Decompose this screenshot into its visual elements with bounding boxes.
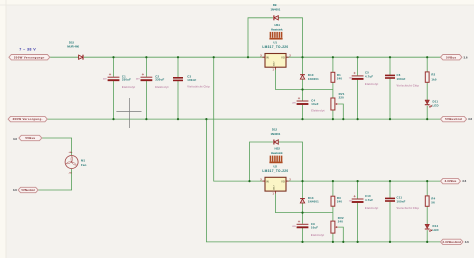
- wire RV1 wiper to ground: [338, 104, 343, 119]
- svg-text:330uF: 330uF: [155, 77, 164, 81]
- svg-text:20V: 20V: [136, 79, 140, 81]
- wire fan - to 5VBusGnd label: [38, 169, 72, 190]
- svg-text:5VBusGnd: 5VBusGnd: [445, 117, 462, 121]
- heatsink HS2: [269, 156, 282, 163]
- diode D9 1N4001: [274, 15, 278, 20]
- junction VIN/5V rail x=113.5: [112, 56, 114, 58]
- svg-text:240: 240: [337, 200, 343, 204]
- wire VIN rail from D15 to U1 IN: [84, 56, 265, 58]
- capacitor C11 100nF: [385, 196, 419, 210]
- svg-text:3.6: 3.6: [468, 117, 472, 121]
- svg-text:7 – 38 V: 7 – 38 V: [19, 48, 36, 52]
- svg-text:Elektrolyt: Elektrolyt: [365, 207, 378, 210]
- junction 3.3V rail x=249.5: [248, 180, 250, 182]
- wire R2 top: [426, 57, 428, 72]
- svg-text:Vielschicht Chip: Vielschicht Chip: [397, 84, 420, 87]
- wire R4 to D14: [426, 206, 428, 224]
- wire U2 ADJ to adjust rail: [276, 194, 333, 213]
- svg-text:R2: R2: [431, 73, 435, 77]
- svg-text:240: 240: [337, 77, 343, 81]
- svg-text:MUR 460: MUR 460: [67, 44, 79, 48]
- LED D14: [425, 224, 432, 231]
- LED D11: [425, 100, 432, 107]
- hierarchical label 5VBusGnd (fan return): [18, 187, 38, 192]
- capacitor C2 330uF: [136, 73, 169, 89]
- junction GND rail x=302.5: [301, 118, 303, 120]
- wire D9 bypass loop: [248, 18, 273, 57]
- wire C1 top: [113, 57, 115, 76]
- wire D11 to ground: [426, 106, 428, 119]
- wire VIN rail from input label to D15: [50, 56, 79, 58]
- svg-text:M1: M1: [81, 159, 86, 163]
- wire RV1 bottom: [332, 110, 334, 119]
- wire D9 bypass loop right: [278, 18, 302, 57]
- junction VIN/5V rail x=248: [247, 56, 249, 58]
- diode D10 1N4001: [300, 75, 305, 79]
- wire RV1 top: [332, 90, 334, 99]
- hierarchical label 5VBus output: [441, 55, 462, 60]
- junction 3.3V rail x=357.6: [357, 180, 359, 182]
- wire R3 bottom: [332, 206, 334, 212]
- svg-text:D12: D12: [272, 127, 278, 131]
- potentiometer RV2 240: [331, 216, 344, 233]
- wire R4 top: [426, 181, 428, 196]
- heatsink HS1: [269, 32, 282, 39]
- wire C11 bottom: [389, 202, 391, 242]
- svg-text:10uF: 10uF: [311, 226, 318, 230]
- wire 3.3V output rail from U2 VO to 3.3VBus label: [286, 180, 441, 182]
- svg-text:330uF: 330uF: [122, 77, 131, 81]
- wire C11 top: [389, 181, 391, 198]
- svg-text:1N4001: 1N4001: [270, 132, 280, 136]
- junction section-2 GND rail x=357.6: [357, 241, 359, 243]
- hierarchical label 5VBusGnd output: [441, 116, 467, 121]
- junction section-2 GND rail x=390: [389, 241, 391, 243]
- svg-text:1k0: 1k0: [431, 77, 437, 81]
- junction VIN/5V rail x=178: [177, 56, 179, 58]
- svg-text:D9: D9: [273, 3, 277, 7]
- junction GND rail x=146.4: [145, 118, 147, 120]
- svg-text:3.6: 3.6: [465, 240, 469, 244]
- svg-text:10uF: 10uF: [311, 102, 318, 106]
- svg-text:5VBus: 5VBus: [25, 136, 35, 140]
- svg-text:3.6: 3.6: [464, 55, 468, 59]
- junction GND rail x=113.5: [112, 118, 114, 120]
- svg-text:Vielschicht Chip: Vielschicht Chip: [397, 207, 420, 210]
- junction GND rail x=332.9: [332, 118, 334, 120]
- wire C4 bottom: [302, 105, 304, 120]
- svg-text:20V: 20V: [292, 226, 296, 228]
- regulator U2 LM317 TO-220: [260, 177, 291, 195]
- hierarchical label 200W Versorgung+: [9, 55, 50, 60]
- junction section-2 GND rail x=332.9: [332, 241, 334, 243]
- wire 5VBus label to fan +: [42, 138, 72, 155]
- wire C6 bottom: [389, 78, 391, 119]
- junction 3.3V rail x=332.9: [332, 180, 334, 182]
- junction GND rail x=206.4: [205, 118, 207, 120]
- svg-text:Fan: Fan: [81, 163, 87, 167]
- svg-text:U2: U2: [273, 164, 277, 168]
- svg-text:ADJ: ADJ: [273, 61, 276, 66]
- hierarchical label 5VBus (fan feed): [19, 135, 42, 140]
- wire RV2 top: [332, 213, 334, 222]
- svg-text:ADJ: ADJ: [273, 185, 276, 190]
- svg-text:VO: VO: [281, 180, 285, 183]
- svg-text:20V: 20V: [103, 79, 107, 81]
- junction 3.3V rail x=390: [389, 180, 391, 182]
- svg-text:220: 220: [339, 96, 345, 100]
- svg-text:4.7uF: 4.7uF: [365, 198, 373, 202]
- wire D10 bottom: [302, 79, 304, 89]
- hierarchical label 200W Versorgung-: [8, 116, 47, 121]
- capacitor C1 330uF: [103, 73, 135, 89]
- svg-text:5VBus: 5VBus: [446, 55, 456, 59]
- junction VIN/5V rail x=213.7: [213, 56, 215, 58]
- svg-text:3.3VBus: 3.3VBus: [445, 179, 457, 183]
- junction 3.3V rail x=302.5: [301, 180, 303, 182]
- svg-text:240: 240: [338, 220, 344, 224]
- capacitor C5 4.7uF: [349, 71, 379, 87]
- junction section-2 GND rail x=302.5: [301, 241, 303, 243]
- svg-text:Elektrolyt: Elektrolyt: [122, 86, 135, 89]
- junction GND rail x=178: [177, 118, 179, 120]
- wire D12 bypass loop: [250, 142, 273, 181]
- svg-text:10V: 10V: [349, 77, 353, 79]
- svg-text:1N4001: 1N4001: [308, 200, 319, 204]
- svg-text:100nF: 100nF: [187, 78, 196, 82]
- wire branch VIN down to U2 IN: [214, 57, 265, 181]
- svg-text:Elektrolyt: Elektrolyt: [365, 83, 378, 86]
- svg-text:Heatsink: Heatsink: [271, 151, 283, 155]
- hierarchical label 3.3VBusGnd output: [441, 239, 464, 244]
- svg-text:U1: U1: [273, 40, 277, 44]
- junction VIN/5V rail x=390: [389, 56, 391, 58]
- svg-text:HS1: HS1: [274, 23, 280, 27]
- svg-text:3.6: 3.6: [13, 188, 17, 192]
- junction section-2 GND rail x=343.3: [342, 241, 344, 243]
- junction VIN/5V rail x=146.4: [145, 56, 147, 58]
- svg-text:56: 56: [431, 201, 435, 205]
- junction GND rail x=343.3: [342, 118, 344, 120]
- wire C3 top: [177, 57, 179, 77]
- wire D13 top: [302, 181, 304, 198]
- wire C3 bottom: [177, 81, 179, 120]
- svg-text:1N4001: 1N4001: [308, 77, 319, 81]
- svg-text:Heatsink: Heatsink: [271, 28, 283, 32]
- junction section-2 GND rail x=427.2: [426, 241, 428, 243]
- hierarchical label 3.3VBus output: [441, 178, 461, 183]
- svg-text:Vielschicht Chip: Vielschicht Chip: [187, 85, 210, 88]
- junction GND rail x=390: [389, 118, 391, 120]
- cursor crosshair: [116, 98, 141, 128]
- svg-text:LM317_TO-220: LM317_TO-220: [262, 169, 288, 173]
- wire R3 top: [332, 181, 334, 196]
- svg-text:LED: LED: [433, 104, 439, 108]
- svg-text:100nF: 100nF: [397, 199, 406, 203]
- wire D13 bottom: [302, 203, 304, 213]
- diode D13 1N4001: [300, 199, 305, 203]
- resistor R2 1k0: [425, 72, 437, 82]
- wire 5V output rail from U1 VO to 5VBus label: [286, 56, 441, 58]
- svg-text:100nF: 100nF: [397, 77, 406, 81]
- diode D15 MUR460: [79, 55, 83, 60]
- junction GND rail x=427.2: [426, 118, 428, 120]
- potentiometer RV1 220: [331, 92, 345, 110]
- wire C4 top: [302, 90, 304, 101]
- wire C5 top: [357, 57, 359, 75]
- svg-text:200W Versorgung-: 200W Versorgung-: [13, 117, 43, 121]
- wire R1 bottom: [332, 82, 334, 89]
- diode D12 1N4001: [274, 140, 278, 145]
- svg-text:LED: LED: [433, 228, 439, 232]
- svg-text:4.7uF: 4.7uF: [365, 75, 373, 79]
- capacitor C10 4.7uF: [349, 194, 379, 210]
- svg-text:3.6: 3.6: [13, 137, 17, 141]
- junction ADJ2 rail: [301, 212, 303, 214]
- svg-text:IN: IN: [266, 180, 269, 183]
- wire C2 bottom: [145, 81, 147, 119]
- svg-text:20V: 20V: [292, 103, 296, 105]
- junction VIN/5V rail x=357.6: [357, 56, 359, 58]
- wire RV2 bottom: [332, 233, 334, 242]
- wire D12 bypass loop right: [278, 142, 302, 181]
- capacitor C3 100nF: [173, 75, 210, 89]
- capacitor C4 10uF: [292, 97, 325, 113]
- svg-text:3.6: 3.6: [462, 179, 466, 183]
- wire C9 top: [302, 213, 304, 224]
- wire branch GND down to section-2 ground rail: [206, 119, 440, 242]
- junction ADJ1 rail: [301, 88, 303, 90]
- svg-text:Elektrolyt: Elektrolyt: [155, 86, 168, 89]
- wire RV2 wiper to ground: [338, 227, 343, 242]
- wire C5 bottom: [357, 79, 359, 119]
- wire C10 top: [357, 181, 359, 199]
- wire C1 bottom: [113, 81, 115, 119]
- svg-text:1N4001: 1N4001: [270, 7, 280, 11]
- resistor R4 56: [425, 196, 435, 206]
- capacitor C9 10uF: [292, 220, 324, 237]
- junction VIN/5V rail x=427.2: [426, 56, 428, 58]
- svg-text:LM317_TO-220: LM317_TO-220: [262, 45, 288, 49]
- svg-text:HS2: HS2: [274, 147, 280, 151]
- wire C6 top: [389, 57, 391, 75]
- svg-text:Elektrolyt: Elektrolyt: [311, 234, 324, 237]
- svg-text:5VBusGnd: 5VBusGnd: [22, 189, 36, 192]
- svg-text:VO: VO: [281, 57, 285, 60]
- wire D14 to ground: [426, 230, 428, 242]
- wire R2 to D11: [426, 82, 428, 100]
- wire C10 bottom: [357, 203, 359, 242]
- svg-text:10V: 10V: [349, 200, 353, 202]
- junction GND rail x=357.6: [357, 118, 359, 120]
- capacitor C6 100nF: [385, 73, 419, 87]
- wire D10 top: [302, 57, 304, 74]
- wire C9 bottom: [302, 228, 304, 242]
- resistor R3 240: [331, 196, 342, 206]
- junction VIN/5V rail x=302.5: [301, 56, 303, 58]
- wire R1 top: [332, 57, 334, 72]
- resistor R1 240: [331, 72, 342, 82]
- svg-text:3.3VBusGnd: 3.3VBusGnd: [442, 240, 461, 244]
- svg-text:Elektrolyt: Elektrolyt: [311, 110, 324, 113]
- junction VIN/5V rail x=332.9: [332, 56, 334, 58]
- regulator U1 LM317 TO-220: [260, 54, 291, 72]
- svg-text:IN: IN: [266, 57, 269, 60]
- svg-text:200W Versorgung+: 200W Versorgung+: [14, 55, 45, 59]
- wire U1 ADJ to adjust rail: [276, 70, 333, 90]
- junction 3.3V rail x=427.2: [426, 180, 428, 182]
- wire C2 top: [145, 57, 147, 76]
- wire GND rail from input label to 5VBusGnd label: [47, 118, 440, 120]
- fan motor M1: [65, 152, 87, 174]
